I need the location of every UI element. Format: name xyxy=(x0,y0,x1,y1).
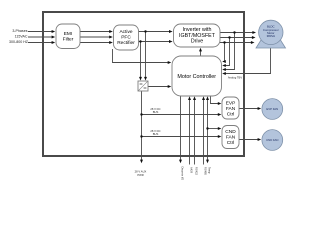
svg-text:FAN: FAN xyxy=(226,134,236,140)
svg-text:380VA: 380VA xyxy=(267,34,276,38)
svg-text:RS422: RS422 xyxy=(195,167,199,175)
svg-text:3-Phases: 3-Phases xyxy=(12,29,27,33)
svg-text:Discrete I/O: Discrete I/O xyxy=(181,167,185,181)
svg-text:RS485: RS485 xyxy=(204,167,208,175)
svg-text:Motor Controller: Motor Controller xyxy=(177,74,216,80)
svg-text:FAN: FAN xyxy=(226,106,236,112)
svg-text:Drive: Drive xyxy=(191,38,203,44)
svg-text:Active: Active xyxy=(119,29,132,35)
svg-text:BUS: BUS xyxy=(153,110,159,114)
svg-text:Rectifier: Rectifier xyxy=(117,40,135,46)
svg-text:PWR: PWR xyxy=(137,173,143,177)
svg-text:Temp: Temp xyxy=(208,167,212,174)
svg-text:CND: CND xyxy=(225,129,236,135)
svg-text:300-800 HZ: 300-800 HZ xyxy=(9,40,29,44)
svg-text:EVP: EVP xyxy=(226,100,236,106)
svg-text:CND FAN: CND FAN xyxy=(266,138,278,142)
svg-text:Ctrl: Ctrl xyxy=(227,140,234,146)
svg-text:EVP FAN: EVP FAN xyxy=(266,107,278,111)
svg-text:Filter: Filter xyxy=(63,36,74,42)
svg-text:115VAC: 115VAC xyxy=(15,34,28,38)
svg-text:A429: A429 xyxy=(190,167,194,174)
svg-text:BUS: BUS xyxy=(153,132,159,136)
svg-text:Ctrl: Ctrl xyxy=(227,112,234,118)
svg-text:Analog TBV: Analog TBV xyxy=(228,75,243,79)
svg-text:PFC: PFC xyxy=(121,35,131,41)
svg-text:EMI: EMI xyxy=(64,31,73,37)
